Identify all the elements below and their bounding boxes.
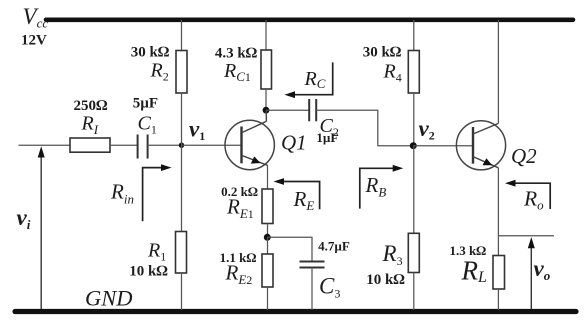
vo arrow [528, 237, 535, 309]
wire RE1 to junction [267, 224, 269, 238]
resistor RC1 [261, 50, 272, 89]
node Q1 collector [263, 107, 270, 114]
capacitor C2 [309, 99, 316, 121]
svg-text:30 kΩ: 30 kΩ [131, 45, 170, 61]
wire v1 to Q1 base [182, 144, 242, 146]
resistor RL [493, 256, 505, 290]
capacitor C1 [138, 135, 148, 159]
svg-text:Q1: Q1 [281, 131, 307, 155]
wire R3 to ground [413, 273, 415, 311]
wire R4 to v2 [413, 93, 415, 146]
resistor R3 [408, 233, 419, 272]
node v2 [410, 142, 417, 149]
resistor R4 [408, 51, 419, 94]
svg-text:4.7µF: 4.7µF [318, 239, 350, 254]
RE bracket [280, 182, 320, 210]
svg-text:Q2: Q2 [511, 144, 537, 168]
wire RI to C1 [110, 144, 137, 146]
wire v1 to R1 [181, 145, 183, 231]
svg-text:12V: 12V [21, 33, 47, 49]
wire Q2 emitter down [497, 168, 499, 256]
wire Vcc to Q2 collector [497, 20, 499, 123]
Vcc rail [46, 17, 573, 22]
resistor RE2 [262, 254, 273, 287]
vi arrow [38, 146, 45, 309]
wire v2 to R3 [413, 146, 415, 234]
wire input left segment [19, 144, 71, 146]
wire R1 to ground [181, 273, 183, 310]
resistor RI [70, 138, 110, 152]
capacitor C3 [300, 262, 325, 268]
wire Q1 emitter to RE1 [267, 165, 269, 189]
Rin bracket [143, 168, 165, 222]
wire R2 to v1 [181, 93, 183, 145]
svg-text:5µF: 5µF [133, 96, 158, 112]
wire Vcc to R2 [181, 20, 183, 51]
wire Vcc to R4 [413, 20, 415, 51]
svg-text:10 kΩ: 10 kΩ [129, 264, 168, 280]
svg-text:10 kΩ: 10 kΩ [366, 272, 405, 288]
node emitter junction [264, 234, 271, 241]
wire C1 to v1 [148, 144, 182, 146]
Ro bracket [512, 183, 551, 209]
wire RL to ground [497, 289, 499, 310]
node v1 [179, 143, 184, 148]
wire output line [498, 235, 554, 237]
resistor R1 [176, 232, 187, 274]
svg-text:GND: GND [85, 286, 133, 311]
wire C2 to v2 [316, 110, 413, 146]
resistor R2 [176, 51, 187, 94]
svg-text:1µF: 1µF [316, 130, 338, 145]
ground rail [15, 309, 576, 314]
svg-text:30 kΩ: 30 kΩ [363, 45, 402, 61]
wire collector node to C2 [266, 109, 309, 111]
resistor RE1 [262, 189, 273, 224]
wire C3 to ground [311, 268, 313, 311]
wire RC1 to collector node [265, 89, 267, 110]
transistor Q2 [456, 121, 505, 170]
RB bracket [360, 168, 397, 208]
wire junction to C3 [267, 237, 312, 261]
wire v2 to Q2 base [413, 145, 473, 147]
RC bracket [291, 62, 333, 94]
wire junction to RE2 [267, 237, 269, 254]
svg-text:4.3 kΩ: 4.3 kΩ [215, 46, 258, 62]
transistor Q1 [225, 110, 274, 170]
wire RE2 to ground [267, 287, 269, 310]
wire Vcc to RC1 [265, 20, 267, 50]
